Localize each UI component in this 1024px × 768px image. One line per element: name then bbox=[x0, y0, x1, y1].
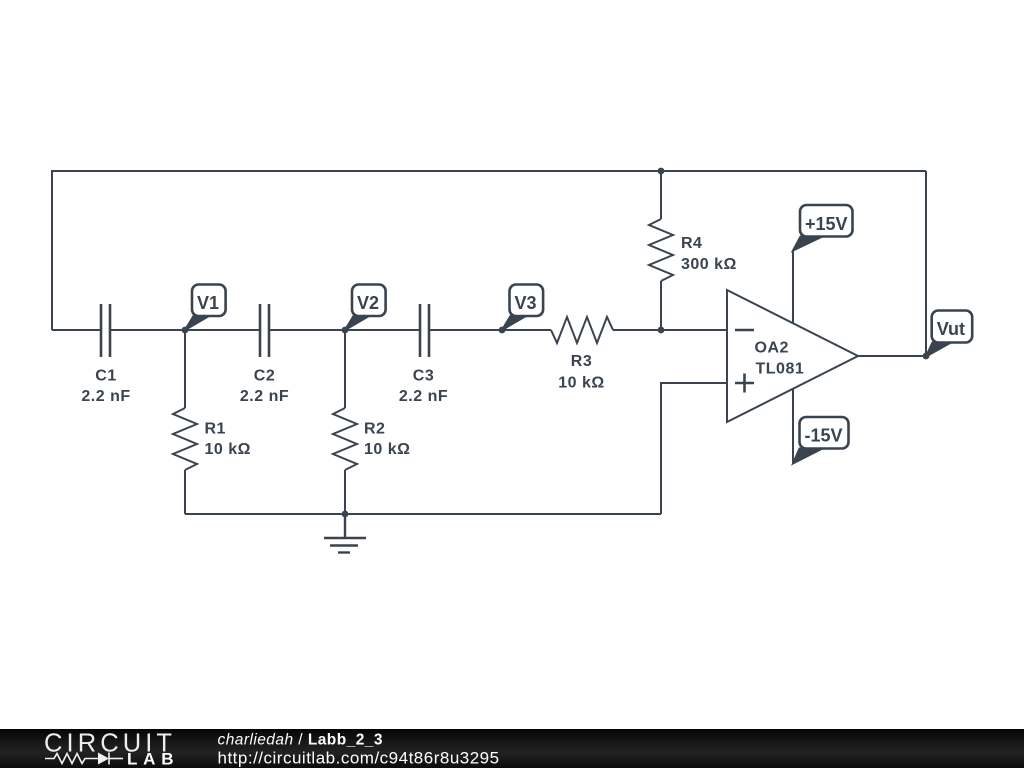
wire op-amp V+ supply bbox=[792, 250, 794, 324]
flag Vut bbox=[926, 311, 972, 357]
svg-text:http://circuitlab.com/c94t86r8: http://circuitlab.com/c94t86r8u3295 bbox=[218, 749, 500, 768]
wire C2 to V2 bbox=[269, 329, 345, 331]
node R4 top junction dot bbox=[658, 168, 665, 175]
node ground junction dot bbox=[342, 511, 349, 518]
wire R3 to op-amp minus input bbox=[613, 329, 727, 331]
svg-text:V2: V2 bbox=[357, 293, 379, 313]
wire V1 to C2 bbox=[185, 329, 260, 331]
logo resistor-diode glyph bbox=[45, 753, 123, 765]
resistor R2 bbox=[333, 330, 357, 514]
svg-text:-15V: -15V bbox=[805, 425, 843, 445]
node V3 junction dot bbox=[499, 327, 506, 334]
wire right rail bbox=[925, 171, 927, 356]
flag V2 bbox=[345, 285, 386, 331]
svg-text:R2: R2 bbox=[364, 421, 385, 438]
wire V2 to C3 bbox=[345, 329, 420, 331]
flag +15V bbox=[793, 205, 853, 251]
svg-text:2.2 nF: 2.2 nF bbox=[240, 388, 289, 405]
svg-text:10 kΩ: 10 kΩ bbox=[364, 441, 410, 458]
flag V3 bbox=[502, 285, 543, 331]
node V2 junction dot bbox=[342, 327, 349, 334]
wire V3 to R3 bbox=[502, 329, 551, 331]
flag -15V bbox=[793, 417, 849, 464]
node minus-input junction dot bbox=[658, 327, 665, 334]
svg-text:LAB: LAB bbox=[127, 750, 179, 768]
footer bar bbox=[0, 729, 1024, 768]
wire C3 to V3 bbox=[429, 329, 502, 331]
svg-text:C2: C2 bbox=[254, 368, 275, 385]
flag V1 bbox=[185, 285, 226, 331]
op-amp minus symbol bbox=[735, 329, 754, 332]
op-amp U1 triangle bbox=[727, 290, 858, 422]
wire op-amp output bbox=[858, 355, 926, 357]
svg-text:R1: R1 bbox=[205, 421, 226, 438]
wire top rail bbox=[52, 171, 926, 330]
ground bbox=[324, 514, 366, 553]
svg-text:10 kΩ: 10 kΩ bbox=[558, 375, 604, 392]
svg-text:OA2: OA2 bbox=[755, 340, 789, 357]
svg-text:Vut: Vut bbox=[937, 319, 965, 339]
svg-text:C1: C1 bbox=[95, 368, 116, 385]
node Vut junction dot bbox=[923, 353, 930, 360]
svg-text:V1: V1 bbox=[197, 293, 219, 313]
svg-text:2.2 nF: 2.2 nF bbox=[399, 388, 448, 405]
svg-text:TL081: TL081 bbox=[756, 361, 805, 378]
wire main left segment bbox=[52, 329, 101, 331]
svg-text:R3: R3 bbox=[571, 353, 592, 370]
capacitor C3 bbox=[420, 304, 429, 357]
wire C1 to V1 bbox=[110, 329, 185, 331]
svg-text:2.2 nF: 2.2 nF bbox=[81, 388, 130, 405]
wire op-amp plus input bbox=[661, 383, 727, 514]
wire op-amp V- supply bbox=[792, 389, 794, 464]
node V1 junction dot bbox=[182, 327, 189, 334]
resistor R1 bbox=[173, 330, 197, 514]
op-amp plus symbol bbox=[735, 374, 754, 393]
resistor R3 bbox=[551, 317, 613, 343]
svg-text:10 kΩ: 10 kΩ bbox=[205, 441, 251, 458]
svg-text:R4: R4 bbox=[681, 235, 702, 252]
capacitor C2 bbox=[260, 304, 269, 357]
svg-text:C3: C3 bbox=[413, 368, 434, 385]
svg-text:V3: V3 bbox=[515, 293, 537, 313]
wire bottom rail bbox=[185, 513, 661, 515]
capacitor C1 bbox=[101, 304, 110, 357]
svg-text:300 kΩ: 300 kΩ bbox=[681, 256, 737, 273]
svg-text:charliedah / Labb_2_3: charliedah / Labb_2_3 bbox=[218, 731, 383, 748]
svg-text:+15V: +15V bbox=[805, 214, 848, 234]
resistor R4 bbox=[649, 171, 673, 330]
